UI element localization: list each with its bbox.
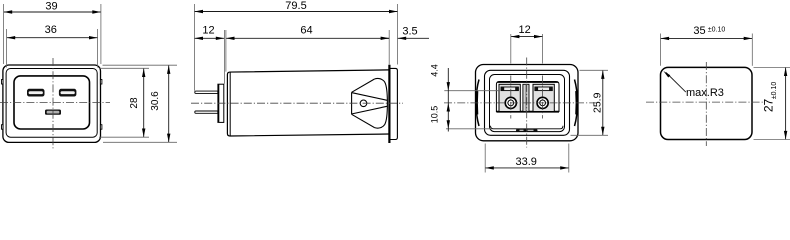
svg-text:79.5: 79.5 xyxy=(285,0,306,12)
svg-text:33.9: 33.9 xyxy=(515,156,536,168)
svg-text:39: 39 xyxy=(45,0,57,12)
svg-text:30.6: 30.6 xyxy=(150,91,161,111)
svg-text:27: 27 xyxy=(762,99,776,113)
svg-text:±0.10: ±0.10 xyxy=(771,82,778,100)
svg-text:64: 64 xyxy=(300,25,312,37)
svg-text:12: 12 xyxy=(518,24,530,36)
svg-text:28: 28 xyxy=(129,97,140,109)
svg-text:10.5: 10.5 xyxy=(429,106,439,124)
svg-text:25.9: 25.9 xyxy=(592,92,604,113)
svg-text:36: 36 xyxy=(45,24,57,36)
svg-text:12: 12 xyxy=(202,25,214,37)
svg-text:4.4: 4.4 xyxy=(429,64,439,77)
svg-text:max.R3: max.R3 xyxy=(686,87,724,99)
svg-text:3.5: 3.5 xyxy=(402,26,417,38)
svg-text:35: 35 xyxy=(693,25,705,37)
svg-text:±0.10: ±0.10 xyxy=(708,27,726,34)
